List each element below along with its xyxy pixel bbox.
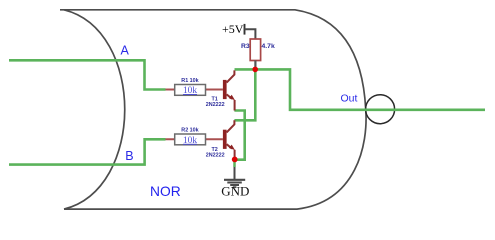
svg-text:R3: R3 bbox=[241, 43, 250, 50]
svg-text:10k: 10k bbox=[183, 86, 197, 96]
T1 emitter arrow bbox=[229, 95, 235, 101]
svg-text:2N2222: 2N2222 bbox=[206, 153, 225, 159]
svg-text:GND: GND bbox=[221, 184, 249, 199]
resistor R2 bbox=[166, 128, 223, 146]
svg-text:B: B bbox=[125, 149, 133, 163]
+5V rail bar bbox=[244, 24, 246, 35]
resistor R1 bbox=[166, 78, 223, 96]
R2 body bbox=[175, 134, 206, 145]
R3 body bbox=[250, 39, 260, 61]
wire input B to R2 bbox=[9, 139, 166, 164]
T1 emitter lead bbox=[227, 94, 232, 98]
R3 bottom pin bbox=[254, 61, 256, 69]
resistor R3 bbox=[241, 39, 275, 68]
svg-text:Out: Out bbox=[341, 92, 358, 104]
T2 emitter arrow bbox=[229, 145, 235, 151]
ground bar 4 bbox=[233, 186, 237, 188]
junction node at emitters / ground bbox=[232, 157, 238, 163]
transistor T2 bbox=[206, 120, 235, 158]
ground bar 3 bbox=[230, 184, 239, 186]
R1 body bbox=[175, 85, 206, 96]
ground symbol bbox=[224, 167, 245, 187]
svg-text:2N2222: 2N2222 bbox=[206, 102, 225, 108]
T2 emitter pin bbox=[234, 150, 236, 158]
T1 emitter pin bbox=[234, 100, 236, 111]
svg-text:R2 10k: R2 10k bbox=[181, 128, 198, 134]
svg-text:+5V: +5V bbox=[222, 22, 244, 36]
T2 collector lead bbox=[227, 120, 235, 132]
T1 collector lead bbox=[227, 70, 235, 82]
wire output node to T2 collector bbox=[234, 69, 255, 120]
wire +5V to R3 bbox=[245, 29, 256, 39]
T1 base bar bbox=[223, 80, 227, 99]
R1 pins bbox=[166, 89, 223, 91]
ground bar 1 bbox=[224, 179, 245, 181]
wire output node to Out bbox=[235, 69, 486, 109]
R2 pins bbox=[166, 138, 223, 140]
svg-text:A: A bbox=[121, 44, 130, 58]
svg-text:R1 10k: R1 10k bbox=[181, 78, 198, 84]
NOR gate body outline bbox=[60, 10, 366, 209]
+5V power symbol bbox=[222, 22, 255, 39]
ground bar 2 bbox=[227, 182, 242, 184]
svg-text:NOR: NOR bbox=[150, 184, 181, 199]
T2 base bar bbox=[223, 130, 227, 149]
junction node at R3 / collectors / output bbox=[252, 67, 258, 73]
wire T1 emitter to ground node bbox=[234, 111, 244, 160]
wire input A to R1 bbox=[9, 60, 166, 89]
svg-text:4.7k: 4.7k bbox=[262, 43, 275, 50]
transistor T1 bbox=[206, 70, 235, 110]
ground pin bbox=[234, 167, 236, 179]
wire ground node stub bbox=[233, 160, 236, 167]
inverter bubble on gate output bbox=[366, 95, 395, 124]
T2 emitter lead bbox=[227, 144, 232, 148]
svg-text:10k: 10k bbox=[183, 136, 197, 146]
